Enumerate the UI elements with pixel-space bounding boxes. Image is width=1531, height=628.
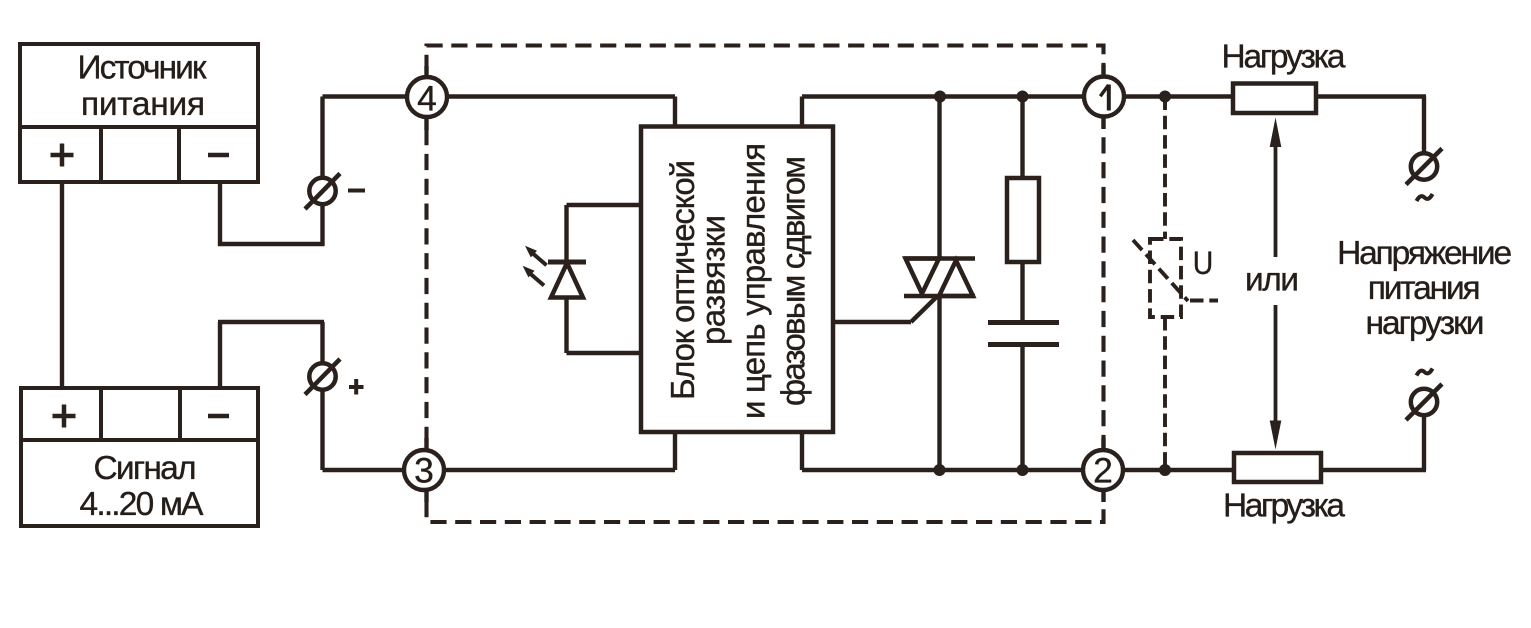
svg-text:питания: питания	[81, 86, 205, 123]
svg-text:3: 3	[414, 451, 434, 491]
svg-text:Нагрузка: Нагрузка	[1222, 39, 1346, 76]
svg-text:4: 4	[417, 79, 437, 119]
svg-text:U: U	[1193, 245, 1214, 281]
svg-text:питания: питания	[1368, 270, 1481, 307]
svg-text:Напряжение: Напряжение	[1337, 235, 1512, 272]
svg-text:4...20 мА: 4...20 мА	[80, 486, 205, 523]
svg-text:Источник: Источник	[78, 50, 207, 87]
svg-text:нагрузки: нагрузки	[1366, 305, 1485, 342]
svg-text:или: или	[1245, 262, 1299, 299]
svg-text:Нагрузка: Нагрузка	[1223, 488, 1345, 525]
svg-text:2: 2	[1093, 451, 1113, 491]
svg-text:Сигнал: Сигнал	[94, 450, 197, 487]
svg-text:фазовым сдвигом: фазовым сдвигом	[774, 156, 811, 406]
svg-text:развязки: развязки	[695, 215, 732, 345]
svg-text:и цепь управления: и цепь управления	[735, 143, 772, 419]
